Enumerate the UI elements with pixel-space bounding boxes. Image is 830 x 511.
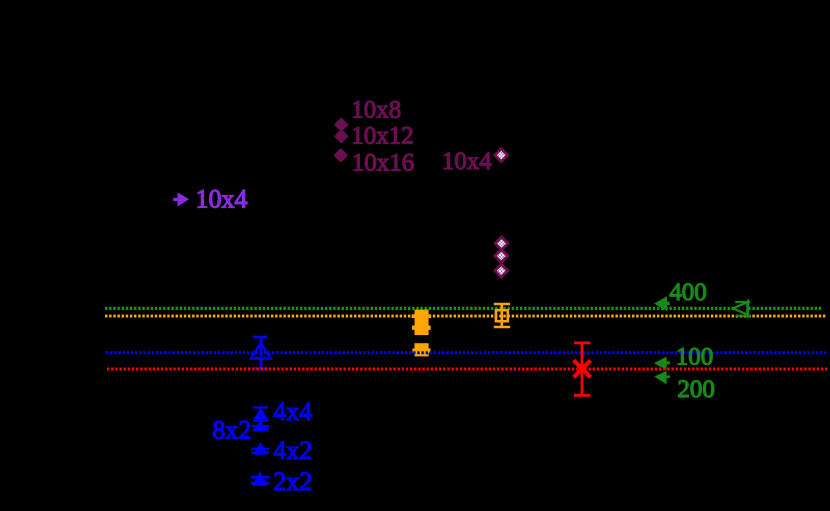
magenta solid diamond 10x8: [334, 117, 349, 132]
blue filled triangle 4x2 with error caps: [251, 442, 270, 454]
svg-text:4x2: 4x2: [273, 436, 312, 465]
green left-arrow marker 200: [654, 371, 670, 385]
red dotted hline y=369: [107, 368, 828, 371]
green open left-triangle with error bar: [733, 299, 751, 317]
checkered diamond mid3: [495, 264, 508, 277]
svg-text:8x2: 8x2: [212, 416, 251, 445]
checkered diamond 10x4 top: [495, 149, 508, 162]
blue filled triangle 4x4 with error caps: [253, 406, 268, 422]
checkered diamond mid2: [495, 250, 508, 263]
svg-text:200: 200: [677, 376, 715, 403]
svg-text:2x2: 2x2: [273, 467, 312, 496]
green left-arrow marker 100: [654, 357, 670, 370]
green dotted hline y=308: [105, 307, 822, 310]
magenta solid diamond 10x12: [334, 129, 349, 144]
svg-text:10x16: 10x16: [352, 150, 415, 177]
blue dotted hline y=353: [106, 351, 827, 354]
red X marker with error bar: [574, 343, 591, 395]
orange open square with error bar: [494, 304, 510, 327]
orange lower square marker: [412, 343, 430, 356]
blue open triangle with error bar: [251, 337, 271, 368]
orange tall bar marker cluster: [412, 310, 432, 336]
svg-text:10x12: 10x12: [351, 123, 414, 150]
svg-text:400: 400: [669, 279, 707, 306]
checkered diamond mid1: [495, 237, 508, 250]
svg-text:10x8: 10x8: [351, 97, 401, 124]
svg-text:10x4: 10x4: [442, 148, 493, 175]
green left-arrow marker 400: [654, 296, 670, 311]
svg-text:4x4: 4x4: [273, 397, 312, 426]
blue filled triangle 8x2 with error caps: [252, 421, 270, 432]
svg-text:10x4: 10x4: [196, 185, 248, 214]
svg-text:100: 100: [676, 343, 714, 370]
magenta solid diamond 10x16: [334, 148, 349, 163]
blue filled triangle 2x2 with error caps: [251, 472, 270, 486]
purple right-arrow marker: [173, 192, 189, 206]
orange dotted hline y=316: [105, 315, 827, 318]
